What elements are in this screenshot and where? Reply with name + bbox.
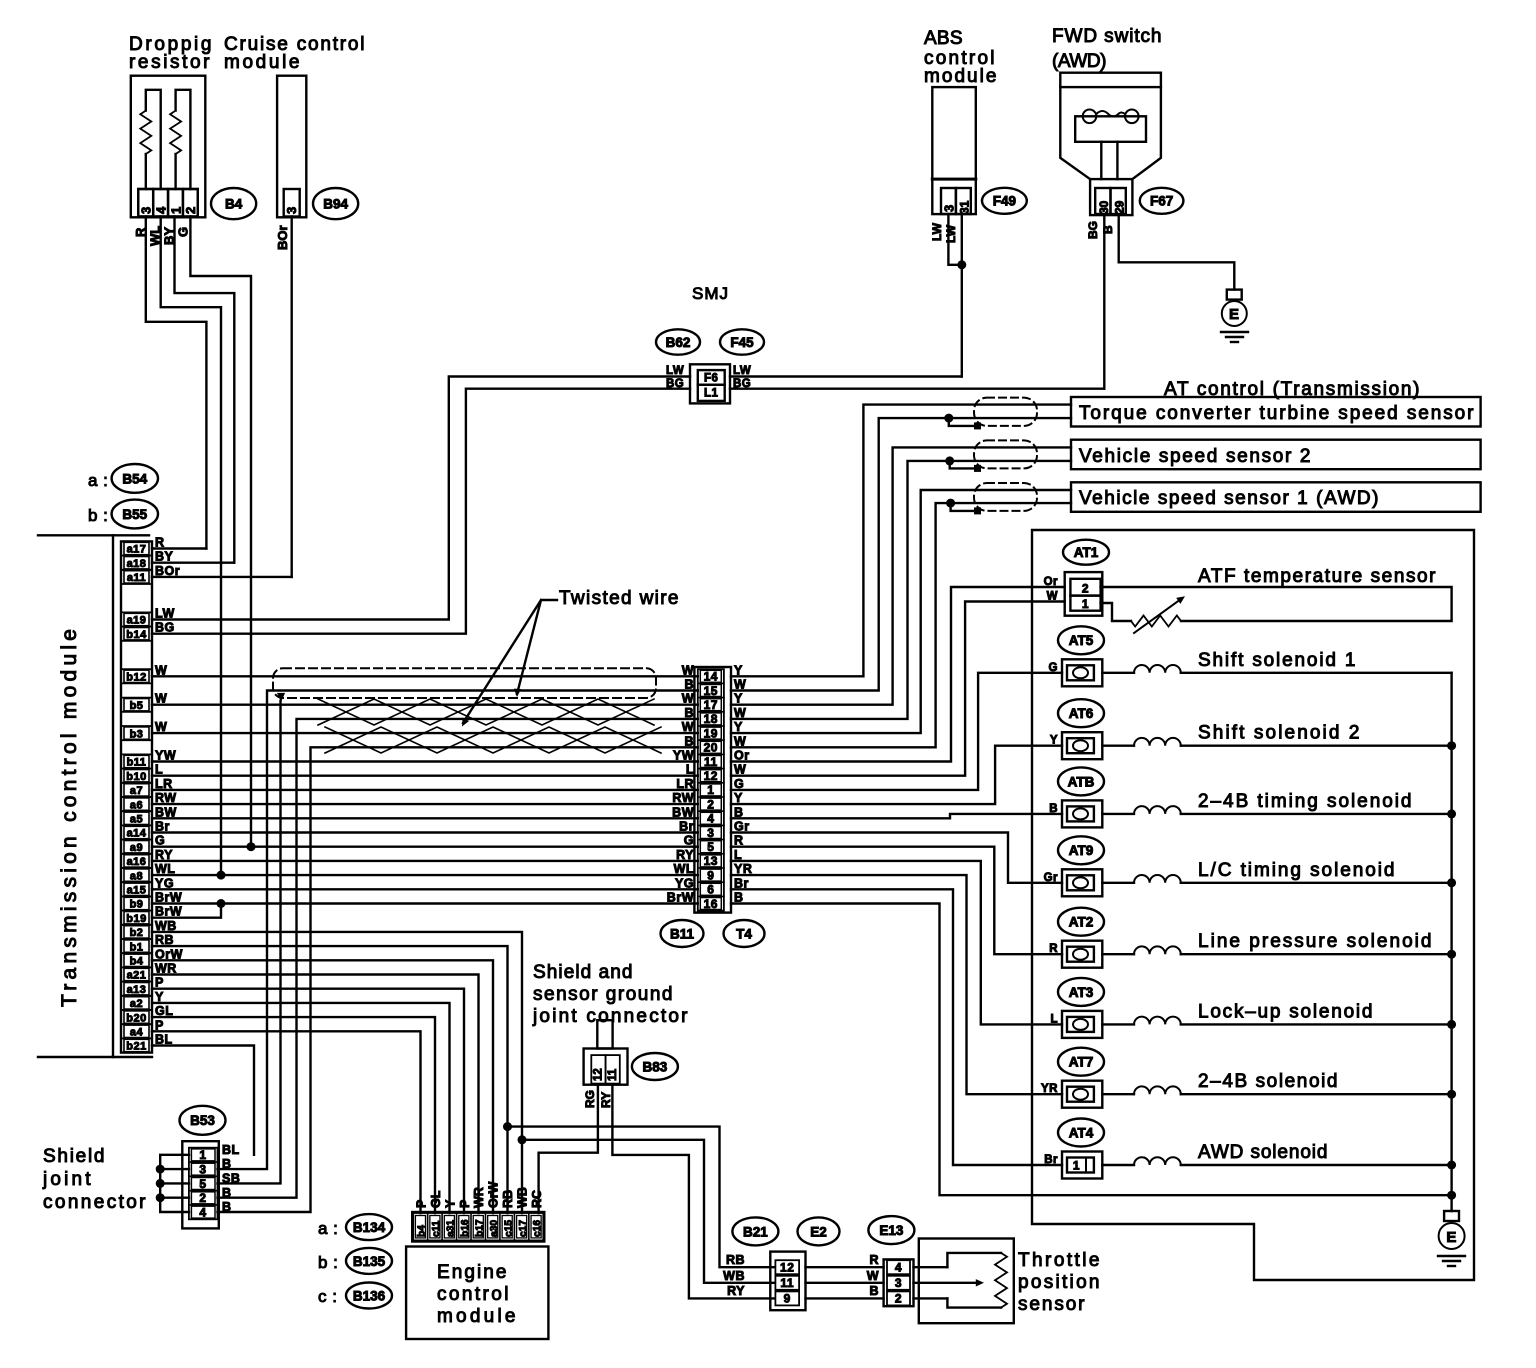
- svg-text:F49: F49: [993, 194, 1016, 209]
- wire ABS-3 LW: [948, 214, 961, 265]
- svg-text:3: 3: [942, 205, 957, 212]
- connector B94 oval: [313, 188, 358, 219]
- wire a5: [152, 817, 698, 819]
- svg-text:Y: Y: [734, 791, 743, 805]
- svg-text:Torque converter turbine speed: Torque converter turbine speed sensor: [1079, 403, 1474, 424]
- connector B4 pins 3 4 1 2: [138, 189, 198, 217]
- svg-text:G: G: [734, 777, 744, 791]
- shield drain pair2: [950, 461, 978, 469]
- svg-text:P: P: [414, 1200, 428, 1208]
- junction dot G a9: [247, 842, 256, 851]
- torque converter turbine speed sensor box: [1071, 397, 1481, 427]
- svg-text:3: 3: [199, 1162, 206, 1176]
- wire a11 BOr: [152, 576, 292, 578]
- svg-text:31: 31: [958, 200, 972, 214]
- wire a6: [152, 803, 698, 805]
- wire a9: [152, 846, 698, 848]
- svg-text:29: 29: [1113, 200, 1127, 214]
- svg-text:Twisted wire: Twisted wire: [559, 588, 679, 609]
- svg-text:15: 15: [704, 684, 718, 698]
- wire B94-3 BOr to a11: [291, 217, 293, 577]
- svg-text:Shift solenoid 1: Shift solenoid 1: [1198, 650, 1356, 671]
- svg-text:RB: RB: [501, 1190, 515, 1208]
- svg-text:W: W: [682, 720, 694, 734]
- wire b11: [152, 760, 698, 762]
- svg-text:E13: E13: [879, 1223, 904, 1238]
- svg-text:5: 5: [199, 1177, 206, 1191]
- svg-text:B4: B4: [225, 196, 243, 211]
- Lock–up solenoid coil: [1102, 1023, 1134, 1025]
- wire pair3 B down to B53 pin4: [218, 747, 698, 1212]
- wire b10: [152, 775, 698, 777]
- connector ATB oval: [1058, 767, 1104, 795]
- svg-text:Line pressure solenoid: Line pressure solenoid: [1198, 931, 1432, 952]
- wire a16: [152, 860, 698, 862]
- svg-text:LW: LW: [666, 365, 684, 377]
- svg-text:b :: b :: [318, 1253, 338, 1272]
- svg-text:ABS: ABS: [924, 28, 963, 49]
- svg-text:b4: b4: [130, 956, 144, 968]
- svg-text:LW: LW: [930, 222, 944, 241]
- svg-text:B136: B136: [353, 1288, 386, 1303]
- svg-text:b :: b :: [88, 506, 108, 525]
- connector T4 oval: [724, 920, 765, 947]
- wire b19 BrW: [152, 904, 221, 918]
- svg-text:SB: SB: [222, 1172, 240, 1186]
- svg-text:B94: B94: [323, 196, 348, 211]
- ABS control module box: [932, 87, 976, 179]
- svg-text:a :: a :: [318, 1219, 338, 1238]
- FWD switch contacts: [1083, 110, 1097, 124]
- wire a15: [152, 888, 698, 890]
- wire a8: [152, 874, 698, 876]
- svg-text:B54: B54: [122, 471, 147, 486]
- svg-text:RC: RC: [530, 1190, 544, 1208]
- svg-text:13: 13: [704, 854, 718, 868]
- svg-text:1: 1: [1082, 597, 1089, 611]
- ground E top right: [1227, 290, 1242, 300]
- svg-text:Vehicle speed sensor 2: Vehicle speed sensor 2: [1079, 446, 1311, 467]
- svg-text:Y: Y: [734, 663, 743, 677]
- connector B83 oval: [632, 1053, 678, 1080]
- wire a2 to ECM: [152, 1003, 450, 1213]
- resistor R1 hairpin: [145, 154, 147, 189]
- connector AT3 oval: [1058, 978, 1104, 1006]
- connector B62 oval: [656, 329, 700, 354]
- connector E2 oval: [798, 1217, 840, 1245]
- svg-text:b21: b21: [126, 1041, 146, 1053]
- junction dot WL a8: [217, 871, 226, 880]
- wire FWD-29 B to ground: [1119, 215, 1235, 290]
- svg-text:12: 12: [704, 769, 718, 783]
- svg-text:b5: b5: [130, 700, 144, 712]
- svg-text:B: B: [222, 1157, 232, 1171]
- svg-text:19: 19: [704, 726, 718, 740]
- junction dot AT3: [1447, 1020, 1456, 1029]
- wire B from B11: [731, 814, 1062, 818]
- wires B21 to E13: [806, 1266, 884, 1268]
- wire a18 BY: [152, 562, 234, 564]
- connector B53 column: [182, 1141, 219, 1228]
- 2–4B timing solenoid connector: [1062, 800, 1102, 827]
- wire a14: [152, 831, 698, 833]
- wire b5: [152, 704, 698, 706]
- svg-text:B11: B11: [670, 926, 695, 941]
- svg-text:a19: a19: [127, 615, 147, 627]
- svg-text:AT9: AT9: [1069, 843, 1094, 858]
- svg-text:11: 11: [780, 1276, 794, 1290]
- wire b9: [152, 902, 698, 904]
- svg-text:18: 18: [704, 712, 718, 726]
- svg-text:Vehicle speed sensor 1 (AWD): Vehicle speed sensor 1 (AWD): [1079, 488, 1379, 509]
- L/C timing solenoid coil: [1102, 882, 1134, 884]
- svg-text:B: B: [684, 706, 694, 720]
- svg-text:a9: a9: [130, 842, 143, 854]
- svg-text:c15: c15: [503, 1220, 514, 1237]
- svg-text:14: 14: [704, 670, 718, 684]
- svg-text:W: W: [734, 678, 746, 692]
- svg-text:a2: a2: [130, 998, 143, 1010]
- svg-text:YR: YR: [734, 862, 752, 876]
- svg-text:ATB: ATB: [1068, 774, 1095, 789]
- svg-text:AT5: AT5: [1069, 633, 1094, 648]
- connector B11/T4 column: [694, 667, 731, 913]
- svg-text:9: 9: [784, 1292, 791, 1306]
- junction dot AT6: [1447, 741, 1456, 750]
- connector B53 oval: [180, 1106, 226, 1135]
- svg-text:RW: RW: [672, 791, 694, 805]
- svg-text:Y: Y: [734, 692, 743, 706]
- svg-text:11: 11: [607, 1068, 619, 1081]
- svg-text:30: 30: [1097, 200, 1111, 214]
- svg-text:2–4B solenoid: 2–4B solenoid: [1198, 1071, 1338, 1092]
- svg-text:RB: RB: [726, 1253, 745, 1267]
- wire SMJ BG right: [730, 388, 1104, 390]
- wire Y from B11: [731, 746, 1062, 804]
- connector AT4 oval: [1058, 1119, 1104, 1147]
- svg-text:BL: BL: [222, 1143, 240, 1157]
- svg-text:Or: Or: [734, 749, 750, 763]
- svg-text:b19: b19: [126, 913, 146, 925]
- wire YR from B11: [731, 875, 1062, 1094]
- svg-text:joint connector: joint connector: [532, 1006, 688, 1027]
- svg-text:RG: RG: [583, 1090, 597, 1108]
- svg-text:B53: B53: [190, 1113, 215, 1128]
- svg-text:b1: b1: [130, 941, 144, 953]
- connector ECM row: [412, 1212, 544, 1242]
- svg-text:3: 3: [284, 207, 299, 214]
- wire b1 to ECM: [152, 946, 508, 1213]
- Lock–up solenoid connector: [1062, 1011, 1102, 1038]
- wire RB branch to B21-12: [508, 1127, 775, 1268]
- svg-text:E2: E2: [810, 1224, 827, 1239]
- svg-text:OrW: OrW: [487, 1181, 501, 1208]
- svg-text:WB: WB: [723, 1269, 745, 1283]
- svg-text:c16: c16: [532, 1220, 543, 1237]
- svg-text:1: 1: [199, 1148, 206, 1162]
- junction dot AT4: [1447, 1161, 1456, 1170]
- svg-text:4: 4: [199, 1205, 206, 1219]
- FWD switch body: [1060, 73, 1161, 87]
- twisted wire leaders: [517, 600, 557, 694]
- engine control module box: [406, 1247, 548, 1340]
- junction dot WB branch: [518, 1135, 527, 1144]
- wire ATF W from pin12: [731, 602, 1065, 776]
- wire SMJ LW left to a19: [152, 377, 690, 620]
- wire FWD-30 BG down to SMJ: [1103, 215, 1105, 389]
- shield drain pair1: [949, 418, 978, 426]
- svg-text:c17: c17: [518, 1220, 529, 1237]
- svg-text:B: B: [1101, 225, 1115, 234]
- svg-text:AT7: AT7: [1069, 1055, 1094, 1070]
- connector AT6 oval: [1058, 699, 1104, 727]
- AWD solenoid connector: [1062, 1152, 1102, 1179]
- svg-text:Br: Br: [734, 876, 749, 890]
- wire b4 to ECM: [152, 960, 493, 1213]
- svg-text:a16: a16: [127, 856, 147, 868]
- wire pair2 B down to B53 pin2: [218, 719, 698, 1198]
- svg-text:G: G: [684, 834, 694, 848]
- svg-text:B: B: [222, 1200, 232, 1214]
- svg-text:L1: L1: [704, 388, 719, 400]
- wire pair1 top: [731, 405, 1071, 677]
- connector E13 column: [884, 1259, 914, 1306]
- svg-text:a6: a6: [130, 799, 143, 811]
- wire a4 to ECM: [152, 1031, 421, 1213]
- svg-text:W: W: [734, 734, 746, 748]
- junction dot RB branch: [503, 1122, 512, 1131]
- svg-text:module: module: [437, 1306, 516, 1327]
- svg-text:3: 3: [707, 826, 714, 840]
- svg-text:LW: LW: [944, 224, 958, 243]
- svg-text:RY: RY: [676, 848, 694, 862]
- shield dashed box pair3: [974, 483, 1037, 511]
- svg-text:BW: BW: [672, 805, 694, 819]
- wire pair2 bottom: [731, 461, 1071, 719]
- Line pressure solenoid connector: [1062, 941, 1102, 968]
- bus wire right: [1450, 673, 1452, 1211]
- svg-text:WL: WL: [674, 862, 694, 876]
- svg-text:G: G: [176, 227, 191, 237]
- wire a17 R: [152, 547, 206, 549]
- shield dashed box pair1 left: [273, 668, 656, 698]
- wire ABS-31 LW down to SMJ: [961, 214, 963, 377]
- 2–4B solenoid connector: [1062, 1081, 1102, 1108]
- junction dot AT9: [1447, 878, 1456, 887]
- Line pressure solenoid coil: [1102, 953, 1134, 955]
- svg-text:12: 12: [593, 1068, 605, 1081]
- wire B4-1 BY to a18: [175, 217, 235, 563]
- svg-text:a7: a7: [130, 785, 143, 797]
- wire b12: [152, 675, 698, 677]
- svg-text:RY: RY: [599, 1092, 613, 1108]
- svg-text:W: W: [867, 1269, 879, 1283]
- svg-text:B134: B134: [353, 1220, 386, 1235]
- svg-text:2: 2: [707, 797, 714, 811]
- wire WB branch to B21-11: [522, 1140, 774, 1283]
- svg-text:B: B: [684, 734, 694, 748]
- connector B11 oval: [661, 920, 704, 947]
- Shift solenoid 2 connector: [1062, 732, 1102, 759]
- svg-text:a11: a11: [127, 572, 146, 584]
- connector B4 oval: [211, 188, 256, 219]
- resistor R2 hairpin: [174, 154, 176, 189]
- SMJ connector box: [690, 364, 730, 403]
- svg-text:5: 5: [707, 840, 714, 854]
- svg-text:11: 11: [704, 755, 718, 769]
- svg-text:AT3: AT3: [1069, 985, 1094, 1000]
- connector F45 oval: [720, 329, 764, 354]
- L/C timing solenoid connector: [1062, 869, 1102, 896]
- svg-text:P: P: [458, 1200, 472, 1208]
- svg-text:T4: T4: [736, 926, 752, 941]
- svg-text:b16: b16: [460, 1219, 471, 1237]
- svg-text:a8: a8: [130, 870, 143, 882]
- dropping resistor box: [131, 76, 206, 218]
- wire G from B11: [731, 673, 1062, 790]
- svg-text:(AWD): (AWD): [1052, 51, 1107, 72]
- svg-text:SMJ: SMJ: [692, 284, 729, 303]
- svg-text:b2: b2: [130, 927, 144, 939]
- throttle sensor wires: [914, 1266, 948, 1268]
- junction dot LW: [957, 260, 966, 269]
- shield drain riser SB: [218, 701, 281, 1183]
- svg-text:LW: LW: [733, 365, 751, 377]
- svg-text:3: 3: [139, 207, 154, 214]
- svg-text:c :: c :: [318, 1287, 337, 1306]
- svg-text:BG: BG: [1086, 221, 1100, 239]
- wire RG to ECM c16: [539, 1085, 598, 1213]
- svg-text:R: R: [734, 834, 744, 848]
- svg-text:b3: b3: [130, 728, 144, 740]
- throttle position sensor box: [919, 1239, 1014, 1324]
- wire pair1 bottom: [731, 418, 1071, 690]
- wire a21 to ECM: [152, 975, 479, 1214]
- svg-text:b10: b10: [126, 771, 146, 783]
- svg-text:17: 17: [704, 698, 718, 712]
- wire b20 to ECM: [152, 1017, 435, 1213]
- svg-text:GL: GL: [429, 1190, 443, 1208]
- wire pair3 bottom: [731, 503, 1071, 747]
- svg-text:a14: a14: [127, 828, 147, 840]
- svg-text:20: 20: [704, 741, 718, 755]
- svg-text:a :: a :: [88, 471, 108, 490]
- svg-text:4: 4: [707, 812, 714, 826]
- vehicle speed sensor 1 box: [1071, 482, 1481, 512]
- svg-text:c11: c11: [431, 1220, 442, 1237]
- svg-text:module: module: [924, 66, 997, 87]
- junction dot ATB: [1447, 809, 1456, 818]
- svg-text:2: 2: [199, 1191, 206, 1205]
- junction dot pair3: [946, 499, 955, 508]
- svg-text:B62: B62: [666, 335, 691, 350]
- 2–4B solenoid coil: [1102, 1093, 1134, 1095]
- connector AT1 oval: [1063, 540, 1109, 565]
- svg-text:b14: b14: [126, 629, 147, 641]
- wire B4-4 WL riser: [161, 217, 221, 876]
- Shift solenoid 2 coil: [1102, 745, 1134, 747]
- svg-text:B: B: [869, 1284, 879, 1298]
- TCM outline: [38, 534, 149, 536]
- FWD connector housing: [1090, 179, 1132, 215]
- connector B21/E2 column: [770, 1252, 805, 1311]
- svg-text:B21: B21: [743, 1224, 768, 1239]
- svg-text:B: B: [222, 1186, 232, 1200]
- svg-text:BG: BG: [155, 621, 175, 635]
- svg-text:4: 4: [895, 1261, 902, 1275]
- svg-text:B: B: [734, 805, 744, 819]
- B53 left common bus: [160, 1155, 189, 1212]
- vehicle speed sensor 2 box: [1071, 440, 1481, 470]
- junction dot AT2: [1447, 950, 1456, 959]
- svg-text:Y: Y: [443, 1199, 457, 1208]
- Shift solenoid 1 connector: [1062, 659, 1102, 686]
- svg-text:L: L: [686, 763, 694, 777]
- wire B4-2 G riser: [190, 217, 251, 847]
- wire SMJ LW right: [730, 375, 962, 377]
- wire b21 BL to B53: [152, 1046, 254, 1155]
- svg-text:B: B: [684, 678, 694, 692]
- svg-text:W: W: [734, 763, 746, 777]
- svg-text:Lock–up solenoid: Lock–up solenoid: [1198, 1001, 1373, 1022]
- svg-text:1: 1: [1073, 1159, 1080, 1173]
- shield dashed box pair1: [974, 398, 1037, 426]
- svg-text:B: B: [734, 891, 744, 905]
- AT control box outline: [1032, 530, 1474, 1280]
- junction dot pair1: [944, 414, 953, 423]
- ABS connector housing: [932, 179, 976, 214]
- throttle potentiometer: [947, 1253, 1001, 1267]
- wire a7: [152, 789, 698, 791]
- svg-text:a17: a17: [127, 544, 147, 556]
- connector AT9 oval: [1058, 836, 1104, 864]
- svg-text:resistor: resistor: [129, 52, 210, 73]
- svg-text:b9: b9: [130, 899, 144, 911]
- wire b3: [152, 732, 698, 734]
- shield drain arrow: [277, 693, 285, 702]
- svg-text:YG: YG: [675, 876, 694, 890]
- thermistor ATF: [1131, 616, 1181, 627]
- wire ATF Or from pin11: [731, 587, 1065, 762]
- TCM pin column: [121, 541, 152, 1052]
- cruise control module box: [277, 76, 306, 218]
- svg-text:9: 9: [707, 868, 714, 882]
- svg-text:a4: a4: [130, 1027, 144, 1039]
- svg-text:1: 1: [168, 207, 183, 214]
- svg-text:b4: b4: [417, 1225, 428, 1237]
- svg-text:Shift solenoid 2: Shift solenoid 2: [1198, 723, 1360, 744]
- svg-text:L: L: [734, 848, 742, 862]
- svg-text:AWD solenoid: AWD solenoid: [1198, 1142, 1328, 1163]
- junction dot pair2: [945, 456, 954, 465]
- svg-text:B83: B83: [643, 1059, 668, 1074]
- svg-text:16: 16: [704, 897, 718, 911]
- svg-text:2: 2: [1082, 582, 1089, 596]
- svg-text:Engine: Engine: [437, 1262, 507, 1283]
- svg-text:1: 1: [707, 783, 714, 797]
- svg-text:a30: a30: [489, 1220, 500, 1237]
- svg-text:module: module: [224, 52, 300, 73]
- shield drain pair3: [951, 503, 978, 511]
- svg-text:RY: RY: [727, 1284, 745, 1298]
- svg-text:F6: F6: [704, 373, 718, 385]
- connector AT7 oval: [1058, 1048, 1104, 1076]
- svg-text:Gr: Gr: [734, 820, 750, 834]
- wire ATF pin2 loop: [1101, 587, 1452, 621]
- wire B4-3 R to a17: [146, 217, 207, 549]
- svg-text:b20: b20: [126, 1012, 146, 1024]
- svg-text:a21: a21: [127, 970, 147, 982]
